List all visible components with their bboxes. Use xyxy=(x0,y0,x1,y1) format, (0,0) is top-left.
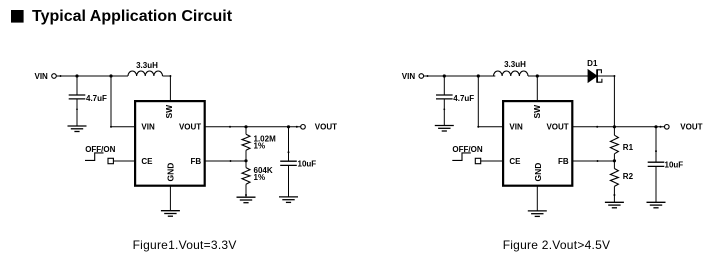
Figure 1: ground under divider xyxy=(237,196,256,198)
Figure 1: capacitor C2 top lead xyxy=(288,127,290,161)
Figure 2: diode D1 anode triangle xyxy=(588,70,597,83)
svg-text:VOUT: VOUT xyxy=(546,123,568,132)
Figure 2: ground under C1 xyxy=(435,125,454,127)
Figure 2: resistor R2 xyxy=(610,169,618,187)
Figure 1: resistor R-lower top lead xyxy=(245,161,247,168)
svg-text:VIN: VIN xyxy=(509,123,523,132)
svg-text:10uF: 10uF xyxy=(665,161,684,170)
Figure 2: resistor R1 top lead xyxy=(613,127,615,135)
Figure 2: junction at C2 tap xyxy=(654,125,657,128)
Figure 1: resistor R-lower 604K xyxy=(242,168,250,185)
svg-text:3.3uH: 3.3uH xyxy=(504,60,526,69)
svg-text:R2: R2 xyxy=(623,172,634,181)
Figure 1: ground under U1 GND pin xyxy=(161,210,180,212)
svg-text:GND: GND xyxy=(165,163,175,182)
Figure 1: wire CE pad to CE pin xyxy=(113,160,135,162)
Figure 1: junction at R1 tap xyxy=(244,125,247,128)
Figure 1: capacitor C1 bottom lead xyxy=(76,99,78,126)
svg-text:VIN: VIN xyxy=(141,123,155,132)
Figure 2: junction at FB divider tap xyxy=(613,159,616,162)
svg-text:VIN: VIN xyxy=(402,72,416,81)
svg-text:Figure1.Vout=3.3V: Figure1.Vout=3.3V xyxy=(133,238,237,252)
Figure 2: node VIN terminal xyxy=(419,74,424,79)
Figure 2: wire down to SW pin xyxy=(536,76,538,101)
svg-text:VOUT: VOUT xyxy=(315,123,337,132)
Figure 1: wire down to SW pin xyxy=(169,76,171,101)
Figure 2: inductor L1 xyxy=(494,71,529,76)
Figure 1: wire VIN terminal to input node xyxy=(56,75,77,77)
Figure 1: wire L1 to SW corner xyxy=(163,75,171,77)
svg-text:FB: FB xyxy=(558,157,569,166)
Figure 2: resistor R2 top lead xyxy=(613,161,615,169)
Figure 1: resistor R-upper 1.02M xyxy=(242,134,250,150)
Figure 2: junction at VIN-pin branch xyxy=(477,74,480,77)
Figure 1: node VOUT terminal xyxy=(301,125,306,130)
Figure 2: wire into VIN pin xyxy=(478,126,503,128)
Figure 2: wire down from D1 to output rail xyxy=(613,76,615,127)
Figure 2: ground under R2 xyxy=(605,201,624,203)
Figure 1: junction at C1 tap xyxy=(75,74,78,77)
svg-text:CE: CE xyxy=(509,157,521,166)
Figure 1: wire input node to L1 xyxy=(77,75,128,77)
Figure 2: junction at R1 tap xyxy=(613,125,616,128)
Figure 1: OFF/ON step waveform symbol xyxy=(85,153,104,161)
svg-text:3.3uH: 3.3uH xyxy=(136,61,158,70)
Figure 1: IC U1 body xyxy=(135,101,205,186)
svg-text:SW: SW xyxy=(532,104,542,119)
Figure 1: wire endpoint dots xyxy=(60,75,62,77)
svg-text:1%: 1% xyxy=(254,142,266,151)
svg-text:Figure 2.Vout>4.5V: Figure 2.Vout>4.5V xyxy=(503,238,611,252)
Figure 2: capacitor C1 top lead xyxy=(443,76,445,95)
Figure 2: wire D1 cathode to output corner xyxy=(598,75,614,77)
Figure 2: node VOUT terminal xyxy=(665,125,670,130)
Figure 2: CE input pad square xyxy=(475,158,480,163)
Figure 1: resistor R-upper bottom lead xyxy=(245,150,247,161)
Figure 2: IC U1 body xyxy=(503,101,572,186)
Figure 2: OFF/ON step waveform symbol xyxy=(452,153,471,161)
Figure 2: wire input branch down to VIN pin xyxy=(477,76,479,127)
Figure 1: capacitor C2 10uF plates xyxy=(280,160,297,162)
Figure 1: junction at FB divider tap xyxy=(244,159,247,162)
Figure 2: wire VIN terminal to input node xyxy=(424,75,445,77)
svg-text:VIN: VIN xyxy=(35,72,49,81)
svg-text:4.7uF: 4.7uF xyxy=(453,94,474,103)
Figure 1: wire into VIN pin xyxy=(111,126,135,128)
svg-text:VOUT: VOUT xyxy=(680,123,702,132)
Figure 1: wire FB pin to divider tap xyxy=(205,160,246,162)
svg-text:VOUT: VOUT xyxy=(179,123,201,132)
Figure 2: D1 cathode top hook xyxy=(597,70,601,73)
Figure 1: wire VOUT pin to output rail xyxy=(205,126,301,128)
Figure 1: wire GND pin down xyxy=(169,186,171,211)
Figure 2: wire input node to L1 xyxy=(444,75,495,77)
Figure 2: junction above SW pin xyxy=(536,74,539,77)
Figure 2: wire L1 to SW junction xyxy=(528,75,537,77)
Figure 1: resistor R-lower bottom lead xyxy=(245,184,247,197)
Figure 2: wire SW junction to D1 anode xyxy=(537,75,588,77)
svg-text:CE: CE xyxy=(141,157,153,166)
Figure 2: resistor R2 bottom lead xyxy=(613,186,615,202)
Figure 2: ground under U1 GND pin xyxy=(528,210,547,212)
Figure 2: D1 cathode bottom hook xyxy=(597,79,602,82)
Figure 1: ground under C1 xyxy=(68,125,87,127)
Figure 2: wire FB pin to divider tap xyxy=(572,160,614,162)
svg-text:10uF: 10uF xyxy=(298,160,317,169)
Figure 2: junction at C1 tap xyxy=(443,74,446,77)
Figure 2: capacitor C2 10uF plates xyxy=(648,161,665,163)
Figure 1: capacitor C1 4.7uF plates xyxy=(69,94,86,96)
svg-text:1%: 1% xyxy=(254,173,266,182)
Figure 1: resistor R-upper top lead xyxy=(245,127,247,134)
Figure 2: diode D1 schottky cathode bar xyxy=(596,69,598,82)
Figure 2: capacitor C1 bottom lead xyxy=(443,99,445,126)
Figure 1: wire input branch down to VIN pin xyxy=(110,76,112,127)
Figure 1: inductor L1 xyxy=(128,71,163,76)
Figure 2: capacitor C2 bottom lead xyxy=(655,166,657,202)
svg-text:FB: FB xyxy=(191,157,202,166)
Figure 2: C1 lead pin dot xyxy=(443,108,445,110)
Figure 1: node VIN terminal xyxy=(52,74,57,79)
Figure 2: wire VOUT pin to output rail xyxy=(572,126,664,128)
Figure 1: C1 lead pin dot xyxy=(76,108,78,110)
section heading bullet square xyxy=(11,10,24,23)
svg-text:GND: GND xyxy=(533,163,543,182)
Figure 2: resistor R1 bottom lead xyxy=(613,154,615,161)
Figure 2: ground under C2 xyxy=(647,201,666,203)
Figure 1: ground under C2 xyxy=(279,196,298,198)
Figure 2: wire GND pin down xyxy=(536,186,538,211)
Figure 1: capacitor C2 bottom lead xyxy=(288,165,290,197)
Figure 1: capacitor C1 top lead xyxy=(76,76,78,95)
Figure 1: junction at VIN-pin branch xyxy=(109,74,112,77)
Figure 2: resistor R1 xyxy=(610,135,618,154)
svg-text:4.7uF: 4.7uF xyxy=(86,94,107,103)
svg-text:R1: R1 xyxy=(623,143,634,152)
svg-text:Typical Application Circuit: Typical Application Circuit xyxy=(32,8,233,25)
Figure 1: CE input pad square xyxy=(108,158,113,163)
svg-text:SW: SW xyxy=(164,104,174,119)
svg-text:D1: D1 xyxy=(587,59,598,68)
Figure 1: junction at C2 tap xyxy=(287,125,290,128)
Figure 2: wire CE pad to CE pin xyxy=(481,160,503,162)
Figure 2: capacitor C1 4.7uF plates xyxy=(436,94,453,96)
Figure 2: capacitor C2 top lead xyxy=(655,127,657,162)
Figure 2: wire endpoint dots xyxy=(427,75,429,77)
